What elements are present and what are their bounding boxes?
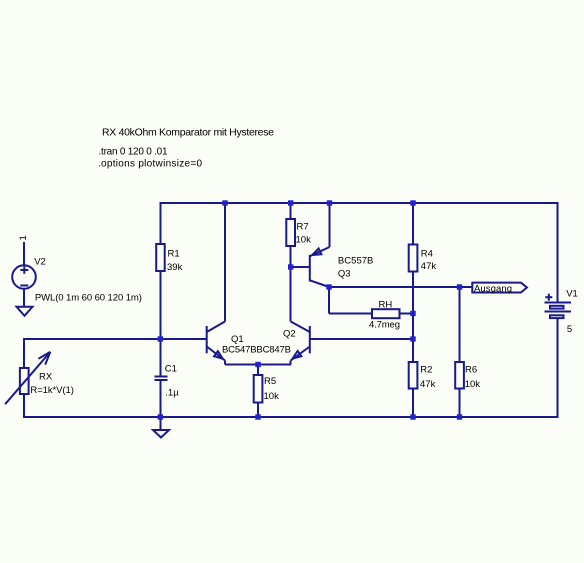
resistor R7 [286, 219, 311, 246]
wire Q2 collector [290, 267, 292, 322]
svg-text:R=1k*V(1): R=1k*V(1) [30, 385, 74, 396]
svg-text:Ausgang: Ausgang [474, 284, 512, 295]
svg-text:V2: V2 [34, 256, 46, 267]
wire input net [23, 338, 25, 340]
wire bottom rail [23, 416, 559, 418]
wire R5 bottom lead [257, 403, 259, 418]
junction output R6 [457, 284, 462, 289]
wire R6 top lead [459, 287, 461, 362]
junction RH R4 [410, 311, 415, 316]
svg-text:4.7meg: 4.7meg [369, 319, 400, 330]
svg-text:R2: R2 [420, 364, 432, 375]
wire R1 top lead [159, 202, 161, 244]
transistor Q2 [283, 322, 310, 361]
junction R7 Q3 base [288, 264, 293, 269]
junction bottom rail R5 [255, 414, 260, 419]
svg-text:RH: RH [379, 299, 393, 310]
svg-text:BC547BBC847B: BC547BBC847B [222, 344, 291, 355]
svg-text:10k: 10k [264, 391, 280, 402]
junction bottom rail R2 [410, 414, 415, 419]
wire RX bottom lead [23, 394, 25, 418]
net flag Ausgang [472, 283, 527, 295]
voltage source V2 [12, 242, 142, 307]
resistor R4 [409, 245, 437, 272]
wire R2 bottom lead [412, 389, 414, 418]
svg-text:47k: 47k [420, 379, 436, 390]
svg-text:Q2: Q2 [283, 328, 296, 339]
junction Q2 base R2 [410, 336, 415, 341]
ground under V2 [17, 307, 33, 316]
wire output net [329, 286, 472, 288]
wire emitter bus [224, 361, 226, 365]
svg-text:R6: R6 [465, 364, 477, 375]
wire Q2 emitter drop [290, 361, 292, 365]
wire Q3 base [291, 266, 310, 268]
svg-text:V1: V1 [566, 288, 578, 299]
resistor R5 [254, 375, 279, 403]
junction top rail Q1 collector [222, 200, 227, 205]
resistor R6 [455, 362, 480, 390]
transistor Q3 [310, 247, 374, 287]
wire R4 top lead [412, 203, 414, 245]
wire R2 top lead [412, 339, 414, 362]
junction top rail R7 [288, 200, 293, 205]
wire node RH to Q2 base [412, 314, 414, 340]
svg-text:.options plotwinsize=0: .options plotwinsize=0 [98, 159, 202, 170]
wire Q2 base net [310, 338, 413, 340]
junction emitter R5 [255, 362, 260, 367]
svg-text:R1: R1 [168, 248, 180, 259]
wire R4 bottom lead [412, 272, 414, 314]
svg-text:10k: 10k [296, 235, 312, 246]
svg-text:R7: R7 [297, 222, 309, 233]
wire R5 top lead [257, 365, 259, 376]
wire C1 bottom lead [159, 380, 161, 417]
ground under C1 [153, 430, 169, 438]
transistor Q1 [207, 322, 291, 361]
wire ground stem under C1 [159, 417, 161, 430]
svg-text:BC557B: BC557B [338, 255, 374, 266]
junction bottom rail C1 [158, 414, 163, 419]
resistor RH [369, 299, 400, 330]
svg-text:.1µ: .1µ [165, 388, 179, 399]
junction top rail Q3 emitter [327, 200, 332, 205]
svg-text:C1: C1 [165, 364, 177, 375]
svg-text:47k: 47k [421, 261, 437, 272]
variable resistor RX [5, 352, 74, 404]
junction bottom rail R6 [457, 414, 462, 419]
junction input node [158, 336, 163, 341]
wire RX top lead [23, 339, 25, 368]
wire Q1 collector [224, 203, 226, 322]
wire right rail lower [557, 318, 559, 419]
wire R6 bottom lead [459, 389, 461, 418]
svg-text:R4: R4 [421, 248, 433, 259]
svg-text:RX: RX [39, 372, 53, 383]
wire RH left drop [328, 287, 330, 314]
resistor R1 [156, 244, 182, 273]
wire RH left lead [329, 313, 372, 315]
junction top rail R4 [410, 200, 415, 205]
junction Q3 collector [326, 284, 331, 289]
wire RH right lead [400, 313, 414, 315]
svg-text:R5: R5 [264, 376, 276, 387]
svg-text:5: 5 [567, 324, 572, 335]
wire right rail upper [557, 203, 559, 303]
svg-text:39k: 39k [167, 262, 183, 273]
svg-text:1: 1 [18, 235, 29, 240]
wire R1 bottom lead [159, 271, 161, 339]
svg-text:.tran 0 120 0 .01: .tran 0 120 0 .01 [99, 146, 168, 157]
wire Q3 emitter riser [329, 203, 331, 247]
svg-text:10k: 10k [465, 379, 481, 390]
resistor R2 [409, 362, 436, 390]
wire top rail [160, 202, 558, 204]
svg-text:PWL(0 1m 60 60 120 1m): PWL(0 1m 60 60 120 1m) [35, 292, 142, 303]
wire R7 bottom lead [290, 246, 292, 267]
svg-text:Q3: Q3 [338, 269, 351, 280]
battery V1 [545, 288, 578, 335]
wire C1 top lead [159, 339, 161, 376]
svg-text:RX 40kOhm Komparator mit Hyste: RX 40kOhm Komparator mit Hysterese [102, 127, 274, 139]
capacitor C1 [154, 364, 179, 399]
wire R7 top lead [290, 203, 292, 219]
